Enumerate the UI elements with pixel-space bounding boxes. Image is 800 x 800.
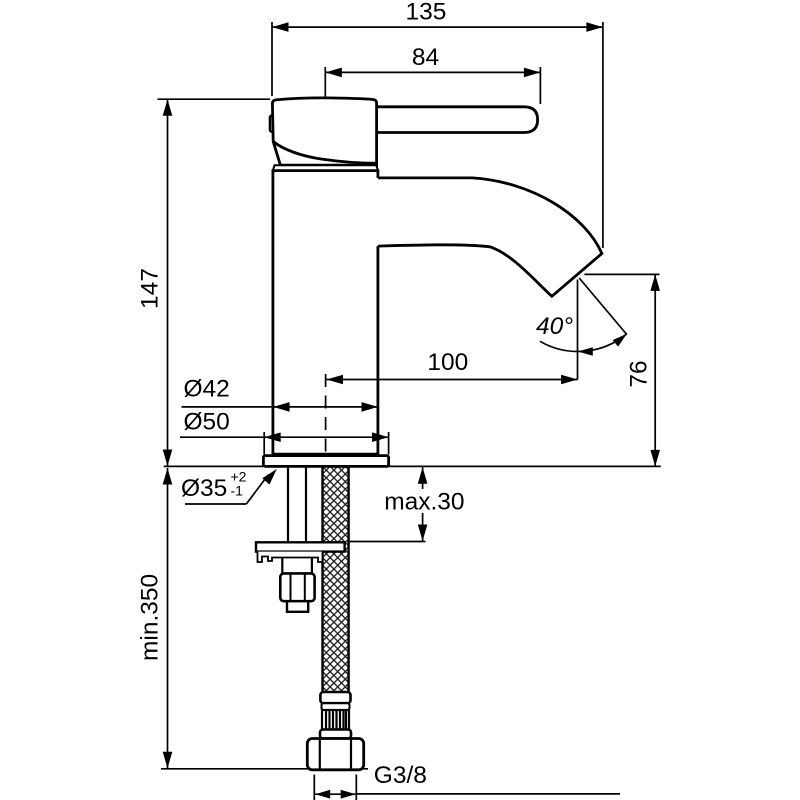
dimension 76 (outlet height) xyxy=(584,274,660,466)
dimension 84 (lever length from axis) xyxy=(325,44,540,104)
threaded mounting stud xyxy=(288,466,306,542)
dimension G3/8 (hose thread) xyxy=(314,762,620,800)
spout (curved, 40 deg cut outlet) xyxy=(378,178,602,296)
hose end fitting collar xyxy=(320,692,350,703)
stud hex nut xyxy=(280,573,314,601)
dimension max.30 (counter thickness) xyxy=(348,467,465,541)
dimension 135 (overall width) xyxy=(272,0,603,248)
centerline of faucet body (dash) xyxy=(325,374,327,455)
svg-text:84: 84 xyxy=(412,44,439,71)
svg-text:147: 147 xyxy=(137,268,164,309)
svg-text:G3/8: G3/8 xyxy=(374,762,427,789)
dimension 147 (body height above counter) xyxy=(137,99,270,466)
lever rear nub xyxy=(270,116,274,132)
svg-text:40°: 40° xyxy=(536,313,573,340)
dimension diam 42 (body) xyxy=(182,376,379,412)
fitting knurled section xyxy=(322,710,349,730)
braided flex hose xyxy=(323,466,349,692)
svg-text:Ø42: Ø42 xyxy=(184,376,230,403)
dimension diam 50 (base plate) xyxy=(180,409,389,455)
fitting lower collar xyxy=(320,730,351,739)
dimension 40 deg (outlet angle) xyxy=(536,278,627,380)
svg-text:-1: -1 xyxy=(231,483,244,499)
stud nut connector xyxy=(282,558,312,574)
faucet body (cylinder) xyxy=(273,171,378,455)
faucet lever handle arm xyxy=(370,107,538,133)
dimension diam 35 +2/-1 (mounting hole) with leader xyxy=(181,469,277,505)
base plate (escutcheon) xyxy=(263,456,388,467)
svg-text:max.30: max.30 xyxy=(384,489,464,516)
svg-text:Ø50: Ø50 xyxy=(184,409,230,436)
dimension 100 (spout reach) xyxy=(327,349,578,384)
svg-text:135: 135 xyxy=(406,0,447,26)
svg-text:100: 100 xyxy=(427,349,468,376)
svg-text:76: 76 xyxy=(625,360,652,387)
counter / mounting surface line xyxy=(164,465,661,467)
hose hex nut G3/8 xyxy=(307,739,363,770)
mounting clamp bracket xyxy=(256,542,345,562)
handle cap / cartridge cover xyxy=(272,98,376,165)
dimension min.350 (hose length) xyxy=(137,468,368,769)
fitting taper band xyxy=(322,703,350,710)
stud rod end xyxy=(287,601,308,612)
svg-text:Ø35: Ø35 xyxy=(181,475,227,502)
svg-text:min.350: min.350 xyxy=(137,574,164,661)
handle underside curve xyxy=(273,142,376,164)
body neck flare xyxy=(273,165,378,170)
